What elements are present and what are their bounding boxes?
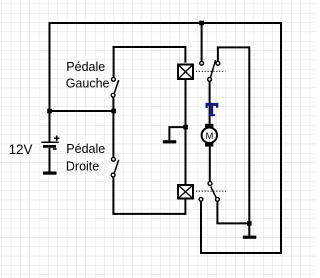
mechanical link K2 (dotted) xyxy=(196,190,226,192)
wire: inner top run to coil K1 xyxy=(113,46,186,48)
svg-text:Pédale: Pédale xyxy=(66,60,105,74)
wire: coil K1 to coil K2 xyxy=(185,80,187,184)
svg-text:Gauche: Gauche xyxy=(66,76,110,90)
wire: battery to pedals xyxy=(50,110,114,112)
wire: motor to contact 2 xyxy=(209,147,211,182)
wire: over to inner ground rail xyxy=(217,46,249,48)
contact K2 (SPDT) xyxy=(199,182,219,202)
ground: battery minus xyxy=(43,172,57,175)
relay coil K2 xyxy=(178,185,193,199)
wire: inner bottom run to coil K2 xyxy=(112,213,185,215)
motor M1 xyxy=(202,124,217,147)
switch S1 Pédale Gauche xyxy=(111,77,119,97)
svg-text:Pédale: Pédale xyxy=(66,142,105,156)
wire: contact1 NC throw up xyxy=(217,46,219,61)
wire: drop to coil K1 pin 1 xyxy=(184,46,186,63)
wire: bottom rail to contact2 NO throw xyxy=(200,202,202,254)
svg-text:M: M xyxy=(205,131,213,142)
wire: contact2 NC throw down xyxy=(216,202,218,224)
wire: tap to ground xyxy=(169,127,185,140)
wire: bottom rail xyxy=(201,252,282,254)
svg-text:12V: 12V xyxy=(9,142,33,157)
wire: Gauche switch up to inner top xyxy=(113,46,115,77)
node: battery junction xyxy=(47,109,52,114)
switch S2 Pédale Droite xyxy=(111,157,119,177)
node: coil ground tap xyxy=(183,125,188,130)
relay coil K1 xyxy=(178,65,193,80)
wire: inner ground rail down xyxy=(248,46,250,221)
wire: Droite switch down to inner bottom xyxy=(112,177,114,214)
node: pedal junction xyxy=(111,109,116,114)
label T (node name) xyxy=(206,103,219,116)
wire: contact1 pole to motor xyxy=(209,82,211,124)
wire: left +12V rail (battery to top) xyxy=(49,23,51,142)
battery B1 12V xyxy=(41,136,59,172)
wire: ground stem xyxy=(248,223,250,235)
wire: right rail (top to bottom) xyxy=(280,22,282,253)
wire: between switches xyxy=(112,98,114,158)
wire: rise to coil K2 pin 2 xyxy=(184,200,186,215)
svg-text:Droite: Droite xyxy=(66,159,99,173)
ground: coils xyxy=(163,140,177,143)
node: ground junction xyxy=(247,221,252,226)
node: top rail tap xyxy=(199,21,204,26)
mechanical link K1 (dotted) xyxy=(196,70,225,72)
wire: over to ground junction xyxy=(216,222,249,224)
wire: top +12V rail xyxy=(49,22,282,24)
wire: rail to contact 1 xyxy=(201,23,203,61)
contact K1 (SPDT) xyxy=(200,60,220,81)
ground: contacts xyxy=(243,236,256,239)
